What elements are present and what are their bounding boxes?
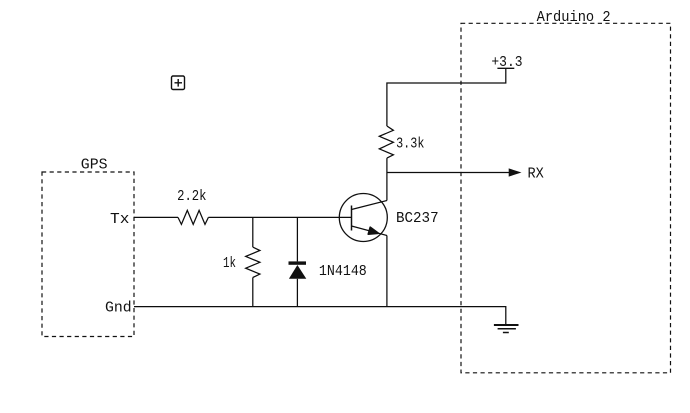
wire RX (387, 172, 510, 174)
svg-text:Gnd: Gnd (105, 301, 132, 317)
svg-text:RX: RX (528, 167, 545, 183)
wire R 1k to ground rail (252, 278, 254, 307)
wire 3.3k to +3.3 rail (387, 68, 506, 126)
RX arrowhead (509, 168, 522, 176)
diode 1N4148 (289, 261, 307, 278)
transistor collector line (352, 201, 387, 210)
wire ground rail (134, 307, 506, 325)
svg-text:1N4148: 1N4148 (319, 264, 367, 280)
svg-text:2.2k: 2.2k (177, 189, 206, 205)
svg-text:Tx: Tx (110, 212, 130, 228)
wire collector to RX node (386, 158, 388, 200)
wire Tx to R 2.2k (134, 216, 178, 218)
resistor 3.3k (379, 126, 393, 158)
resistor 2.2k (178, 210, 208, 224)
svg-text:BC237: BC237 (396, 211, 439, 227)
svg-text:3.3k: 3.3k (396, 137, 424, 153)
wire node to R 1k (252, 217, 254, 247)
supply +3.3 symbol (497, 67, 514, 69)
svg-text:1k: 1k (223, 256, 236, 272)
wire emitter to ground rail (386, 236, 388, 307)
resistor 1k (246, 247, 260, 277)
wire node to diode D1 (296, 217, 298, 261)
wire R 2.2k to base node (208, 216, 351, 218)
GPS module box (42, 172, 134, 337)
transistor emitter arrow (368, 227, 378, 234)
transistor emitter line (352, 226, 387, 236)
transistor Q1 BC237 circle (339, 194, 387, 242)
ground symbol (494, 325, 519, 333)
svg-text:+3.3: +3.3 (491, 55, 522, 71)
svg-text:Arduino 2: Arduino 2 (537, 10, 611, 26)
transistor base bar (351, 206, 353, 231)
svg-text:GPS: GPS (81, 158, 108, 174)
Arduino 2 box (461, 23, 671, 373)
wire diode to ground rail (296, 279, 298, 307)
origin marker (172, 76, 185, 90)
